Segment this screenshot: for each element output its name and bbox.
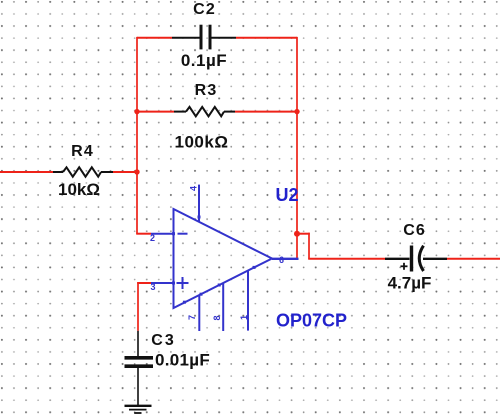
pin junction dots (172, 216, 256, 304)
svg-text:0.01µF: 0.01µF (155, 351, 210, 370)
svg-text:7: 7 (187, 315, 197, 320)
pin 8 lead (222, 283, 224, 331)
svg-text:4: 4 (189, 186, 199, 191)
svg-text:R3: R3 (195, 82, 218, 99)
wire R3 to right vertical (235, 111, 297, 113)
svg-text:1: 1 (239, 315, 249, 320)
junction output node (294, 231, 300, 237)
capacitor C6 (385, 246, 447, 272)
svg-text:2: 2 (150, 233, 155, 243)
junction node A (134, 169, 139, 174)
resistor R3 (174, 107, 235, 116)
svg-text:R4: R4 (71, 143, 94, 160)
svg-text:C3: C3 (151, 332, 175, 349)
pin 6 lead (272, 258, 299, 260)
svg-text:C6: C6 (403, 222, 425, 239)
svg-text:8: 8 (212, 315, 222, 320)
svg-text:10kΩ: 10kΩ (58, 180, 100, 199)
wire R4 to node A (113, 171, 137, 173)
capacitor C3 (125, 331, 154, 405)
wire right vertical feedback (296, 37, 298, 259)
wire C6 to right edge (447, 258, 500, 260)
resistor R4 (53, 167, 113, 176)
svg-text:3: 3 (151, 282, 156, 292)
svg-text:6: 6 (279, 255, 284, 265)
op-amp minus sign (178, 233, 188, 235)
pin 7 lead (198, 295, 200, 331)
svg-text:U2: U2 (275, 185, 298, 205)
pin 4 lead (198, 185, 200, 222)
svg-text:4.7µF: 4.7µF (388, 274, 432, 293)
op-amp plus sign (177, 277, 189, 289)
pin 3 lead (151, 282, 174, 284)
junction R3 left (134, 109, 139, 114)
C6 plus sign (401, 263, 408, 270)
wire C2 to right vertical (236, 37, 297, 39)
svg-text:C2: C2 (193, 1, 216, 18)
wire left vertical (node A up to feedback, down to pin2) (136, 37, 138, 234)
pin 2 lead (151, 233, 174, 235)
wire output jog to C6 (297, 233, 310, 235)
wire pin3 down to C3 (137, 282, 151, 284)
ground (125, 406, 152, 413)
svg-text:OP07CP: OP07CP (276, 311, 347, 331)
wire input to R4 (0, 171, 53, 173)
wire stub to pin 2 (136, 233, 151, 235)
junction R3 right (294, 109, 299, 114)
pin 1 lead (247, 271, 249, 331)
svg-text:0.1µF: 0.1µF (181, 51, 227, 70)
wire node A to R3 (137, 111, 174, 113)
capacitor C2 (172, 25, 236, 50)
op-amp U2 triangle (174, 209, 273, 308)
wire top branch to C2 (137, 37, 172, 39)
svg-text:100kΩ: 100kΩ (175, 133, 229, 152)
